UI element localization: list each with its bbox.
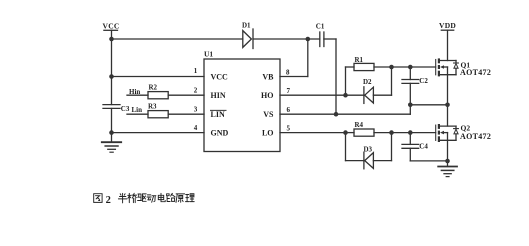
node VB bootstrap [306,37,311,42]
wire switch node link [410,104,447,106]
node switch link left [408,103,413,108]
wire to R1 left [346,66,355,68]
caption glyph li [186,194,195,202]
wire C4 bottom [409,148,411,161]
wire left rail upper [111,39,113,77]
svg-text:LO: LO [262,128,274,137]
caption glyph qiao [128,193,137,202]
LIN overline [211,109,227,111]
wire D3 right [373,160,391,162]
svg-text:R1: R1 [355,56,364,64]
wire VS [280,113,410,115]
node Q2 source ground [445,159,450,164]
caption glyph dong [147,195,156,202]
wire VB up to top rail [307,39,309,77]
wire Q2 source down [447,140,449,161]
wire C4 top [409,133,411,145]
diode D3 [364,152,374,169]
VDD power symbol [441,30,453,60]
capacitor C2 [402,80,419,84]
svg-text:D1: D1 [242,21,251,29]
svg-text:8: 8 [286,68,290,76]
svg-text:3: 3 [194,106,198,114]
wire D2 branch up [391,67,393,95]
node gate Q1 C2 [408,65,413,70]
svg-text:VCC: VCC [103,22,120,31]
wire top rail to D1 [112,38,243,40]
wire R1 right [374,66,392,68]
node pin1 rail [109,74,114,79]
svg-text:C1: C1 [316,23,325,31]
caption glyph ban [118,193,127,203]
diode D2 [364,87,374,104]
wire C1 down to VS [335,39,337,114]
wire D2 left [346,94,364,96]
svg-text:Lin: Lin [132,106,143,114]
wire Hin lead [127,94,148,96]
wire pin1 [112,76,205,78]
node HO R1 D2 [343,93,348,98]
node top rail / VCC [109,37,114,42]
svg-text:R3: R3 [148,102,157,110]
svg-text:U1: U1 [204,49,213,58]
op IC U1 box [204,59,280,152]
svg-text:Hin: Hin [129,88,140,96]
svg-text:2: 2 [106,195,111,206]
wire D3 branch up [391,133,393,161]
svg-text:C3: C3 [121,105,130,113]
transistor Q1 [436,58,459,76]
node C1 VS [334,112,339,117]
svg-text:HIN: HIN [211,91,226,100]
VCC power symbol [104,30,118,39]
resistor R3 [148,111,168,118]
wire C4 to ground rail [410,160,447,162]
capacitor C1 [320,32,324,47]
resistor R4 [354,129,374,136]
caption figure 2 half bridge drive circuit [94,193,195,203]
wire D1 to C1 [253,38,320,40]
svg-text:R4: R4 [355,121,364,129]
node gate Q2 left [389,130,394,135]
wire gate line Q2 [410,132,435,134]
svg-text:VDD: VDD [439,21,456,30]
ground right [438,167,457,177]
svg-text:D3: D3 [364,146,373,154]
wire R3 to pin3 [168,113,204,115]
capacitor C3 [103,105,120,109]
svg-text:R2: R2 [149,84,158,92]
wire Q1 source to Q2 drain [447,75,449,126]
svg-text:6: 6 [287,106,291,114]
transistor Q2 [436,124,459,142]
caption glyph tu [94,194,102,203]
caption glyph yuan [176,194,185,203]
wire LO to C4 node [392,132,411,134]
svg-text:AOT472: AOT472 [460,132,491,141]
wire VB stub [280,76,308,78]
diode D1 [243,29,253,49]
wire LO [280,132,346,134]
svg-text:Q2: Q2 [461,123,471,132]
wire left rail middle [111,77,113,105]
caption glyph lu [167,193,176,201]
svg-text:HO: HO [261,91,273,100]
svg-text:GND: GND [211,128,229,137]
svg-text:AOT472: AOT472 [460,68,491,77]
wire D3 branch down [345,133,347,161]
capacitor C4 [402,144,419,148]
wire left rail lower [111,109,113,133]
node switch link right [445,103,450,108]
caption glyph dian [158,193,165,201]
wire C1 right [324,38,336,40]
node pin4 rail [109,130,114,135]
wire R2 to pin2 [168,94,204,96]
wire pin4 [112,132,205,134]
svg-text:C2: C2 [419,77,428,85]
svg-text:2: 2 [194,87,198,95]
svg-text:VB: VB [262,72,274,81]
wire ground stub right [447,161,449,166]
ground left [102,142,121,152]
wire up to R1 [345,67,347,95]
svg-text:C4: C4 [419,143,428,151]
wire ground stub left [111,133,113,142]
wire C2 bottom [409,83,411,114]
svg-text:4: 4 [194,124,198,132]
wire D3 left [346,160,364,162]
node gate Q2 C4 [408,130,413,135]
wire HO [280,94,346,96]
node LO R4 D3 [343,130,348,135]
wire to R4 left [346,132,355,134]
caption glyph qu [138,194,147,201]
resistor R1 [354,63,374,70]
resistor R2 [148,92,168,99]
wire R4 right [374,132,392,134]
wire C2 top [409,67,411,80]
svg-text:VCC: VCC [211,72,229,81]
svg-text:D2: D2 [363,78,372,86]
wire D2 right [373,94,391,96]
wire Lin lead [127,113,148,115]
svg-text:5: 5 [287,124,291,132]
svg-text:1: 1 [194,67,198,75]
svg-text:LIN: LIN [211,110,225,119]
svg-text:VS: VS [263,110,274,119]
wire gate line Q1 [392,66,436,68]
svg-text:7: 7 [287,87,291,95]
node gate Q1 left [389,65,394,70]
